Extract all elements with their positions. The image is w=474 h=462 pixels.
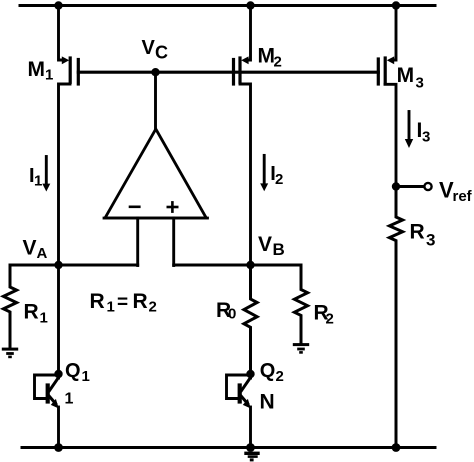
svg-text:1: 1 [40,310,48,327]
svg-text:Q: Q [260,360,276,382]
svg-text:R: R [90,290,105,313]
svg-text:1: 1 [107,299,115,316]
svg-text:3: 3 [426,231,435,250]
svg-text:1: 1 [82,368,90,385]
svg-text:2: 2 [275,171,283,188]
svg-text:1: 1 [45,67,53,84]
svg-text:=: = [117,292,128,313]
svg-text:R: R [133,290,148,313]
svg-text:B: B [273,240,285,259]
svg-text:V: V [23,237,37,260]
svg-text:2: 2 [149,299,157,316]
svg-text:A: A [37,245,48,262]
svg-text:Q: Q [65,360,81,382]
svg-text:N: N [260,391,275,414]
svg-text:3: 3 [422,129,430,146]
svg-text:M: M [397,64,415,87]
svg-text:R: R [410,221,425,244]
svg-text:2: 2 [276,368,284,385]
svg-text:M: M [28,58,46,81]
svg-text:1: 1 [65,391,74,408]
svg-text:V: V [258,233,272,256]
svg-text:M: M [258,45,276,68]
svg-text:1: 1 [34,173,42,190]
svg-text:R: R [24,301,39,324]
svg-text:0: 0 [228,306,236,323]
svg-text:V: V [142,37,156,59]
svg-text:ref: ref [453,188,473,205]
svg-text:2: 2 [274,54,282,71]
svg-text:C: C [155,43,168,63]
svg-text:3: 3 [416,75,424,92]
svg-text:2: 2 [326,311,334,328]
